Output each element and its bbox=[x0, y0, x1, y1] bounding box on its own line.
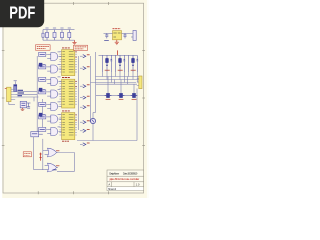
transistor Q7 bbox=[90, 118, 96, 123]
transistor Q4 (low side) bbox=[105, 93, 112, 97]
value label (Q4) bbox=[106, 98, 111, 100]
diode D1 bbox=[39, 63, 45, 66]
part label (U2) bbox=[62, 77, 70, 79]
note box 2 (red) bbox=[23, 152, 31, 157]
transistor driver cell Q2 bbox=[116, 55, 126, 72]
and-gate G4 bbox=[47, 89, 61, 98]
PDF badge bbox=[0, 0, 44, 27]
svg-text:yijiao 8CH Remote controller: yijiao 8CH Remote controller bbox=[109, 177, 139, 181]
input filter box channel 6 bbox=[39, 115, 48, 119]
value label (cell Q2) bbox=[118, 69, 123, 71]
value label (regulator) bbox=[113, 28, 121, 30]
capacitor C3 bbox=[60, 28, 63, 40]
or-gate G9 bbox=[45, 163, 58, 172]
or-gate G8 bbox=[45, 148, 58, 157]
ground symbol (cap bank) bbox=[72, 40, 76, 45]
ground symbol (crystal) bbox=[21, 108, 25, 111]
capacitor C4 bbox=[68, 28, 71, 40]
net arrow (ch3) bbox=[80, 85, 90, 88]
connector J1 bbox=[7, 87, 16, 104]
wire reset to gate bbox=[34, 137, 45, 170]
title block text: rev cells bbox=[108, 182, 140, 186]
power flag VCC (row 1) bbox=[117, 50, 119, 55]
note box (red annotation) bbox=[36, 45, 51, 50]
wire vertical bus (right of ICs) bbox=[79, 52, 96, 141]
voltage regulator U4 bbox=[113, 31, 122, 40]
title block bbox=[107, 170, 144, 191]
sheet zone tick marks bbox=[2, 2, 145, 194]
resistor R1 (red) bbox=[40, 153, 42, 161]
svg-text:PDF: PDF bbox=[9, 3, 35, 23]
part label (below U3) bbox=[62, 140, 69, 142]
IC U2 bbox=[59, 79, 77, 108]
wire driver row 2 bus bbox=[96, 77, 137, 141]
net arrow (ch1) bbox=[80, 55, 90, 58]
part label (U1) bbox=[62, 47, 70, 49]
connector J3 (relay outputs) bbox=[137, 76, 142, 89]
net arrow (ch4) bbox=[80, 96, 90, 99]
capacitor C2 bbox=[53, 28, 56, 40]
title block text: Design Name / Date bbox=[109, 171, 137, 175]
net label (G9 output) bbox=[53, 169, 57, 171]
wire driver row 1 supply rail bbox=[99, 54, 138, 56]
capacitor C7 (regulator output) bbox=[124, 33, 127, 38]
power flag (J1) bbox=[5, 88, 7, 90]
net arrow (ch6) bbox=[80, 121, 90, 124]
svg-text:A: A bbox=[108, 182, 110, 186]
svg-text:Sheet of: Sheet of bbox=[108, 187, 116, 191]
input filter box channel 2 bbox=[39, 65, 48, 69]
input filter box channel 3 bbox=[39, 77, 48, 81]
IC U3 bbox=[59, 113, 77, 140]
transistor Q5 (low side) bbox=[118, 93, 125, 97]
IC U1 bbox=[59, 50, 77, 76]
and-gate G7 bbox=[47, 127, 61, 136]
pin number marks (IC) bbox=[75, 52, 76, 57]
diode D5 bbox=[39, 113, 45, 116]
input filter box channel 7 bbox=[39, 127, 48, 131]
svg-text:1.0: 1.0 bbox=[136, 182, 140, 186]
wire driver row 1 returns bbox=[91, 72, 140, 83]
and-gate G2 bbox=[47, 64, 61, 73]
net arrow (ch8) bbox=[80, 143, 90, 146]
wire long net to J3 bbox=[77, 140, 137, 142]
transistor driver cell Q1 bbox=[103, 55, 113, 72]
and-gate G5 bbox=[47, 102, 61, 111]
transistor driver cell Q3 bbox=[129, 55, 139, 72]
and-gate G6 bbox=[47, 114, 61, 123]
and-gate G1 bbox=[47, 52, 61, 61]
wire top rail of capacitor bank bbox=[43, 29, 75, 31]
capacitor C9 (crystal load) bbox=[27, 103, 31, 108]
net arrow (ch5) bbox=[80, 106, 90, 109]
wire J1 nets bbox=[15, 56, 42, 132]
capacitor C8 (electrolytic) bbox=[14, 81, 17, 92]
input filter box channel 5 bbox=[39, 102, 48, 106]
connector J2 (power input) bbox=[131, 30, 136, 40]
pin number marks (IC) bbox=[75, 115, 76, 120]
net arrow (ch7) bbox=[80, 129, 90, 132]
wire bottom gates bbox=[43, 139, 75, 172]
pin number marks (IC) bbox=[75, 82, 76, 87]
net arrow (ch2) bbox=[80, 67, 90, 70]
crystal Y1 bbox=[20, 101, 26, 107]
capacitor C5 (left end) bbox=[42, 30, 44, 41]
wire regulator input bbox=[104, 32, 113, 34]
and-gate G3 bbox=[47, 77, 61, 86]
wire bottom rail of capacitor bank bbox=[43, 39, 75, 41]
section note box (red) bbox=[74, 45, 88, 50]
value label (cell Q3) bbox=[131, 69, 136, 71]
capacitor C6 (regulator input) bbox=[104, 33, 109, 40]
input filter box channel 4 bbox=[39, 90, 48, 94]
value label (Q5) bbox=[119, 98, 124, 100]
wire regulator output bbox=[122, 32, 133, 34]
value label (cell Q1) bbox=[105, 69, 110, 71]
value label (Q6) bbox=[132, 98, 137, 100]
sheet background bbox=[0, 0, 149, 198]
transistor Q6 (low side) bbox=[131, 93, 138, 97]
sheet border frame bbox=[3, 3, 144, 193]
component box (reset circuit) bbox=[31, 132, 43, 137]
value label (G9) bbox=[56, 165, 59, 167]
capacitor C1 bbox=[45, 28, 48, 40]
value label (G8) bbox=[56, 150, 59, 152]
input filter box channel 1 bbox=[39, 52, 48, 56]
svg-text:Design Name: Design Name bbox=[109, 171, 119, 175]
part label (U3) bbox=[62, 110, 70, 112]
svg-text:Date: 2008/09/19: Date: 2008/09/19 bbox=[123, 171, 138, 175]
diode D3 bbox=[39, 88, 45, 91]
net labels (J1 bus) bbox=[18, 90, 25, 95]
ground symbol (regulator) bbox=[115, 40, 119, 45]
